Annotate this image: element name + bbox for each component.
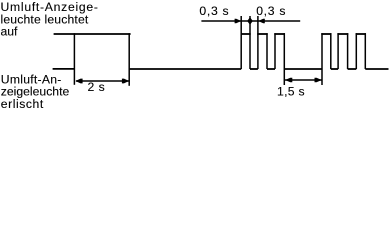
svg-text:2 s: 2 s [88, 80, 106, 94]
svg-text:erlischt: erlischt [1, 97, 44, 111]
svg-text:1,5 s: 1,5 s [277, 85, 305, 99]
svg-text:auf: auf [1, 25, 19, 39]
svg-text:0,3 s: 0,3 s [256, 4, 286, 18]
svg-text:0,3 s: 0,3 s [199, 4, 229, 18]
